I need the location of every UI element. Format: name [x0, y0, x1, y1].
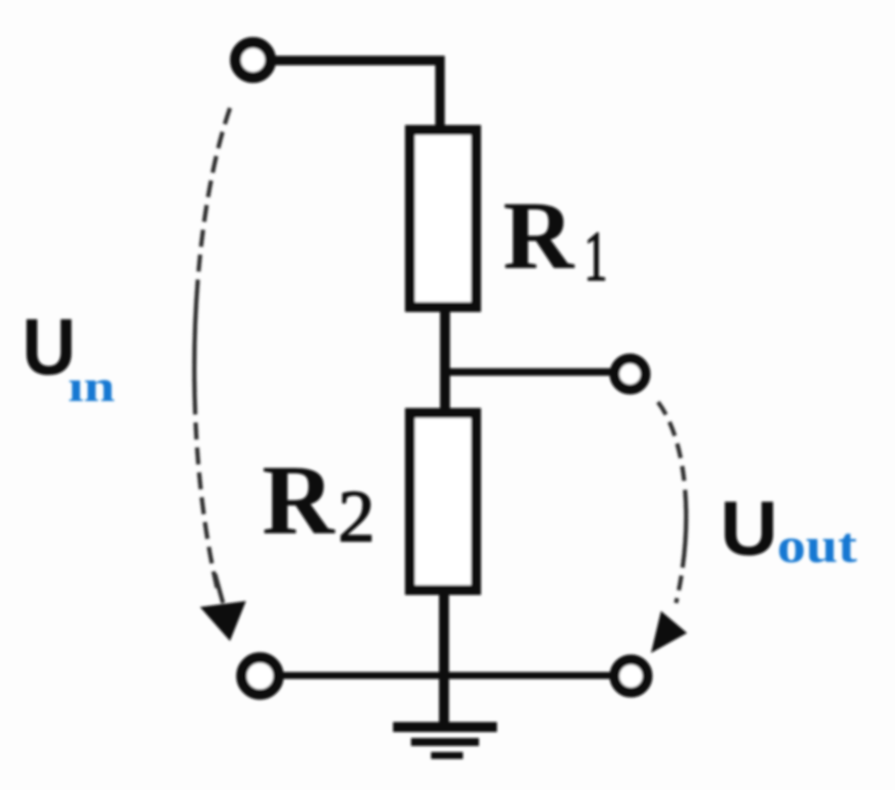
svg-text:R: R: [503, 182, 575, 290]
svg-text:out: out: [777, 517, 857, 573]
svg-text:1: 1: [584, 217, 607, 296]
svg-text:U: U: [720, 486, 778, 572]
svg-text:2: 2: [338, 476, 375, 558]
svg-text:R: R: [262, 444, 336, 555]
svg-text:ın: ın: [68, 362, 115, 411]
